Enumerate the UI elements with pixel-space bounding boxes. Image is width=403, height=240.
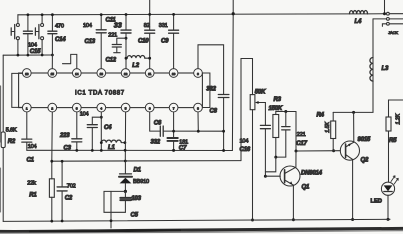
jack connector J1 middle contact (373, 18, 403, 21)
value label 1.5K rotated (325, 121, 331, 132)
svg-text:L2: L2 (132, 63, 139, 69)
svg-text:104: 104 (28, 42, 37, 48)
svg-text:332: 332 (206, 87, 216, 93)
resistor R4 (331, 121, 336, 139)
svg-text:14: 14 (75, 72, 79, 76)
value label 104 C13 (83, 23, 96, 45)
wire bracket joining pin 16 and pin 1 (12, 73, 23, 107)
svg-text:12: 12 (124, 72, 128, 76)
svg-text:C10: C10 (138, 39, 149, 45)
capacitor C8 outer loop from pin 9 (198, 45, 229, 151)
junction dot pot ground (251, 219, 254, 222)
value label JACK (388, 30, 398, 35)
wire pin 15 top lead (51, 55, 53, 69)
value label R4 (317, 113, 325, 119)
svg-text:BB910: BB910 (133, 179, 149, 185)
svg-text:C3: C3 (64, 146, 72, 152)
potentiometer wiper arrow (255, 101, 265, 104)
value label LED (371, 199, 383, 205)
capacitor C16 (260, 125, 270, 128)
varactor diode D1 BB910 (119, 161, 132, 191)
svg-text:331: 331 (159, 23, 168, 29)
capacitor C10 with pin 11 line from top edge (145, 0, 155, 69)
wire ground bottom rail (3, 219, 390, 221)
wire L3 bottom down and left to emitter node (333, 81, 373, 112)
wire pin 6 lead and C6 horizontal run (150, 112, 224, 131)
pin 14 (72, 69, 81, 78)
svg-text:10: 10 (172, 72, 176, 76)
wire pin 5 lead down through line P to line Q (124, 112, 126, 161)
pin 9 (194, 69, 203, 78)
value label C6 332 (151, 121, 162, 146)
value label 332 C8 (206, 87, 217, 115)
wire R4 bottom to base node (332, 139, 334, 151)
wire R5 to LED (388, 131, 390, 182)
scan artifact left edge marks (0, 86, 2, 212)
junction dots on rails top left (17, 13, 54, 56)
value label L4 (355, 19, 362, 25)
wire top supply rail (18, 13, 368, 16)
junction dot pin5 line P (124, 149, 127, 152)
capacitor C11 with pin 12 lead (121, 15, 131, 69)
svg-text:C16: C16 (240, 147, 251, 153)
wire vertical from image top edge to jack junction (384, 0, 386, 14)
jack connector J1 top contact (387, 12, 403, 15)
inductor L3 (370, 58, 373, 82)
switch S1 (11, 15, 19, 55)
wire pin 1 lead down to C1 (26, 112, 28, 139)
pin 1 (22, 103, 31, 112)
capacitor C3 (72, 139, 82, 142)
value label 50K (255, 90, 266, 96)
resistor R2 (1, 132, 5, 148)
svg-text:82: 82 (144, 23, 150, 29)
junction dot at rail and jack (383, 12, 386, 15)
svg-text:16: 16 (25, 72, 29, 76)
transistor Q2 9015 (340, 141, 359, 160)
svg-text:221: 221 (297, 132, 306, 138)
value label 223 C3 (59, 133, 72, 152)
ground hook at pin 14 (63, 54, 77, 68)
svg-text:150K: 150K (269, 106, 283, 112)
LED light arrows (391, 176, 398, 184)
junction dot C5 ground rail (110, 219, 113, 222)
svg-text:6: 6 (149, 106, 151, 110)
pin 2 (48, 103, 57, 112)
resistor R3 with leads (273, 112, 279, 158)
value label 331 C9 (159, 23, 169, 45)
svg-text:33: 33 (114, 21, 122, 30)
wire Q1 emitter down to ground rail (292, 185, 294, 220)
capacitor C2 with leads (57, 161, 67, 221)
wire wiper line down through C16 to Q1 base (264, 103, 266, 177)
wire Q1 collector up (295, 151, 297, 167)
svg-text:181: 181 (179, 139, 188, 145)
svg-text:R1: R1 (29, 193, 37, 199)
wire rail segment after L4 to jack junction (368, 13, 385, 15)
svg-text:1.5K: 1.5K (325, 121, 331, 132)
jack connector J1 lower contact with stub (382, 22, 403, 26)
wire LED to ground rail (387, 195, 389, 219)
value label 22k R1 (27, 180, 37, 198)
svg-text:1.2K: 1.2K (396, 113, 402, 124)
junction dots L1 (100, 141, 126, 144)
svg-text:R5: R5 (389, 138, 397, 144)
junction dot pin4 line P (100, 149, 103, 152)
value label 221 C17 (296, 132, 307, 147)
capacitor C12 branch with leads (112, 38, 126, 53)
capacitor C6 vertical plates (160, 126, 163, 136)
junction dots R1 (50, 160, 53, 223)
svg-text:702: 702 (67, 184, 76, 190)
svg-text:C13: C13 (85, 39, 96, 45)
wire lower left rail (3, 54, 52, 56)
svg-text:C4: C4 (104, 125, 112, 131)
pin 10 (169, 69, 178, 78)
wire jack to L3 (372, 19, 374, 58)
capacitor C1 (22, 139, 32, 150)
pin 7 (169, 103, 178, 112)
svg-text:C15: C15 (30, 49, 41, 55)
junction dots pin8 C8 (197, 130, 225, 152)
junction dot LED ground (387, 218, 390, 221)
junction dots L2 (125, 57, 152, 60)
junction dot pin4 C4 branch (100, 116, 103, 119)
resistor R4 top lead (332, 112, 334, 121)
value label 103 C5 (131, 196, 142, 219)
junction dot D1 line Q (124, 160, 127, 163)
svg-text:9: 9 (197, 72, 199, 76)
svg-text:C12: C12 (106, 58, 117, 64)
junction dot V1 on top rail (232, 12, 235, 15)
svg-text:5: 5 (125, 106, 127, 110)
wire R5 feed from right edge (389, 100, 403, 117)
wire Q2 emitter up (353, 112, 355, 142)
transistor Q1 DN9014 (280, 166, 300, 186)
svg-text:11: 11 (148, 72, 151, 76)
value label 104 C15 (28, 42, 41, 55)
junction dot C10 rail (148, 13, 151, 16)
wire V1 vertical from top edge through rail to line P (231, 0, 234, 151)
capacitor C9 with pin 10 lead (169, 14, 179, 68)
svg-text:5.6K: 5.6K (6, 128, 17, 134)
svg-text:2: 2 (51, 106, 53, 110)
svg-text:C8: C8 (210, 109, 218, 115)
inductor L1 between pin4 and pin5 leads (101, 140, 125, 142)
wire pin 7 lead down through C7 to line P (173, 112, 175, 150)
value label 1.2K rotated (396, 113, 402, 124)
wire inner loop pin 9 to pin 8 (202, 73, 210, 108)
svg-text:223: 223 (59, 133, 70, 139)
svg-text:C2: C2 (65, 196, 73, 202)
pin 13 (97, 69, 106, 78)
wire base to Q1 (265, 175, 280, 177)
svg-text:R4: R4 (317, 113, 325, 119)
junction node emitter Q2 (352, 111, 355, 114)
svg-text:L3: L3 (382, 66, 389, 72)
svg-text:C5: C5 (131, 213, 139, 219)
svg-text:104: 104 (83, 23, 92, 29)
wire line P main horizontal from C1 to right (27, 149, 233, 151)
IC U1 body TDA7088 (19, 73, 203, 108)
junction dot Q1 collector node (295, 150, 298, 153)
resistor R5 (386, 117, 391, 131)
junction dot Q1 base (264, 175, 267, 178)
junction dots C7 area (172, 130, 175, 152)
wire pin 4 lead down to line P (100, 112, 102, 150)
svg-text:13: 13 (100, 72, 104, 76)
value label 5.6K (6, 128, 17, 134)
svg-text:L1: L1 (108, 145, 115, 151)
svg-text:D1: D1 (134, 168, 142, 174)
junction dot C12 branch (125, 37, 128, 40)
svg-text:470: 470 (55, 24, 64, 30)
svg-text:LED: LED (371, 199, 383, 205)
LED D2 (381, 182, 394, 195)
junction dot C3 line P (75, 149, 78, 152)
svg-text:8: 8 (197, 106, 199, 110)
capacitor C17 with leads (282, 112, 290, 158)
capacitor C14 with leads (48, 15, 57, 55)
svg-text:L4: L4 (355, 19, 362, 25)
value label D1 BB910 (133, 168, 149, 186)
wire R3 C17 top rail (276, 111, 296, 113)
value label 104 C1 (27, 144, 37, 164)
svg-text:C17: C17 (296, 141, 307, 147)
svg-text:4: 4 (100, 106, 102, 110)
svg-text:IC1 TDA 70887: IC1 TDA 70887 (75, 91, 125, 97)
svg-text:DN9014: DN9014 (301, 171, 323, 177)
switch S2 (35, 15, 43, 55)
svg-text:1: 1 (26, 106, 28, 110)
junction dot Q2 base node (332, 149, 335, 152)
wire Q2 collector down to ground rail (352, 159, 354, 219)
wire line Q horizontal (52, 160, 241, 163)
wire pot bottom to ground rail (252, 110, 254, 220)
reference label R2 (8, 139, 16, 145)
svg-text:104: 104 (240, 139, 249, 145)
wire pin 8 lead down (197, 112, 199, 131)
value label 82 C10 (138, 23, 150, 45)
resistor R1 with leads (49, 161, 54, 221)
wire base node to Q2 (296, 150, 340, 152)
label C11 and value 33 (106, 18, 122, 30)
svg-text:15: 15 (51, 72, 55, 76)
potentiometer feed loop from line Q up and over (241, 59, 253, 161)
junction dot C4 line P (91, 149, 94, 152)
junction dot node A above C5 (124, 190, 127, 193)
pin 8 (194, 103, 203, 112)
value label DN9014 (301, 171, 323, 177)
value label 9015 (358, 137, 371, 143)
value label L2 (132, 63, 139, 69)
pin 6 (145, 103, 154, 112)
pin 3 (72, 103, 81, 112)
value label 150K (269, 106, 283, 112)
wire from R3 rail down to Q1 collector node (295, 112, 297, 152)
wire R3 C17 bottom join (276, 156, 286, 158)
svg-text:221: 221 (108, 33, 117, 39)
pin 5 (121, 103, 130, 112)
wire left rail from switch rail down through R2 (2, 55, 4, 221)
junction dot C13 rail (100, 13, 103, 16)
inductor L4 (350, 11, 368, 14)
scan artifact bottom edge smudge (0, 228, 403, 233)
junction dot C17 top (284, 110, 287, 113)
reference label R5 (389, 138, 397, 144)
svg-text:104: 104 (80, 112, 89, 118)
svg-text:R3: R3 (274, 97, 282, 103)
svg-text:C7: C7 (179, 146, 187, 152)
value label 104 C4 (80, 112, 112, 132)
svg-text:C14: C14 (55, 37, 66, 43)
svg-text:C6: C6 (154, 121, 162, 127)
value label L1 (108, 145, 115, 151)
svg-text:7: 7 (173, 106, 175, 110)
value label L3 (382, 66, 389, 72)
pin 12 (121, 69, 130, 78)
svg-text:3: 3 (76, 106, 78, 110)
value label 470 C14 (55, 24, 66, 43)
svg-text:103: 103 (131, 196, 141, 202)
svg-text:Q2: Q2 (361, 158, 369, 164)
wire jog from R3 bottom to wiper line (265, 157, 275, 172)
reference label Q2 (361, 158, 369, 164)
pin 4 (97, 103, 106, 112)
value label 221 (108, 33, 117, 39)
svg-text:50K: 50K (255, 90, 266, 96)
capacitor C4 branch with leads (87, 117, 101, 150)
reference label IC1 TDA 70887 (75, 91, 125, 97)
pin 15 (48, 69, 57, 78)
capacitor C13 with pin 13 lead (96, 15, 106, 69)
svg-text:R2: R2 (8, 139, 16, 145)
wire pin 2 lead down to line Q (51, 112, 54, 161)
pin 16 (22, 69, 31, 78)
svg-text:C1: C1 (27, 158, 35, 164)
svg-text:9015: 9015 (358, 137, 371, 143)
junction dots C2 (61, 160, 64, 223)
svg-text:332: 332 (151, 140, 161, 146)
reference label Q1 (302, 185, 310, 191)
value label 702 C2 (65, 184, 76, 202)
value label 104 C16 (240, 139, 251, 154)
inductor L2 between pin 12 and pin 11 leads (127, 56, 150, 59)
junction dot C11 rail (125, 13, 128, 16)
capacitor C5 with loop wires (104, 191, 131, 228)
svg-text:104: 104 (28, 144, 37, 150)
junction dot Q2 collector ground (351, 218, 354, 221)
potentiometer 50K body (250, 95, 255, 110)
wire pin 3 lead down through C3 to line P (76, 112, 78, 150)
value label 181 C7 (179, 139, 188, 151)
reference label R3 (274, 97, 282, 103)
svg-text:22k: 22k (27, 180, 36, 186)
junction dot R3 bottom (274, 156, 277, 159)
pin 11 (145, 69, 154, 78)
junction dot C9 rail (172, 13, 175, 16)
svg-text:JACK: JACK (388, 30, 398, 35)
capacitor C15 with leads (23, 15, 32, 55)
junction dot Q1 emitter ground (292, 218, 295, 221)
svg-text:Q1: Q1 (302, 185, 310, 191)
capacitor C7 thick plates (167, 138, 177, 141)
svg-text:C9: C9 (161, 39, 169, 45)
label C12 (106, 58, 117, 64)
